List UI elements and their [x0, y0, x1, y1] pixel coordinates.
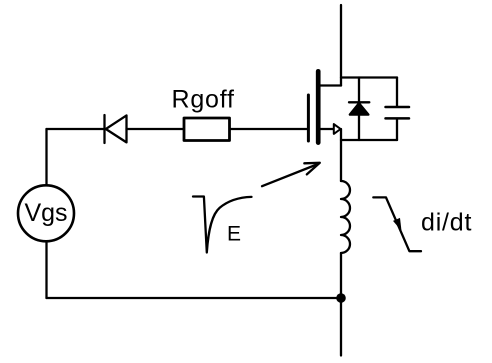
svg-text:Vgs: Vgs — [24, 199, 67, 227]
wire: drain vertical to top edge — [340, 5, 342, 86]
annotation arrow head (open) — [304, 163, 320, 175]
inductor L (4 loops) — [341, 181, 350, 253]
wire: resistor to MOSFET gate — [231, 128, 307, 130]
MOSFET Q1 source arrow — [334, 124, 341, 134]
MOSFET Q1 channel bar — [316, 71, 321, 142]
wire: bottom return rail — [47, 297, 342, 299]
junction node dot — [336, 293, 346, 303]
wire: left vertical from gate wire corner down to Vgs top — [45, 129, 47, 185]
capacitor C top plate — [386, 106, 410, 109]
diode D1 cathode bar — [103, 115, 105, 143]
wire: body diode branch lower — [358, 114, 360, 140]
capacitor C bottom plate — [386, 117, 410, 120]
MOSFET Q1 drain lead — [320, 84, 341, 86]
wire: junction to bottom edge — [340, 298, 342, 356]
body diode cathode bar — [349, 101, 369, 103]
wire: source vertical down to inductor — [340, 129, 342, 181]
wire: inductor to junction — [340, 253, 342, 298]
wire: capacitor branch upper — [396, 78, 398, 107]
svg-text:E: E — [227, 223, 241, 246]
MOSFET Q1 gate plate — [307, 95, 310, 141]
di/dt slope line — [373, 197, 421, 251]
E spike waveform — [193, 197, 252, 253]
svg-text:Rgoff: Rgoff — [172, 86, 235, 114]
wire: left vertical from Vgs bottom to bottom rail — [45, 242, 47, 299]
wire: top rail of clamp network — [341, 76, 397, 78]
annotation arrow shaft pointing at MOSFET source — [262, 164, 318, 186]
voltage source Vgs circle — [18, 185, 74, 241]
diode D1 triangle (pointing left) — [106, 115, 127, 142]
svg-text:di/dt: di/dt — [421, 209, 472, 237]
wire: diode to resistor — [127, 128, 184, 130]
wire: capacitor branch lower — [396, 119, 398, 140]
resistor Rgoff body — [184, 118, 230, 141]
MOSFET Q1 source lead — [320, 128, 334, 130]
body diode triangle (pointing up, filled) — [350, 103, 369, 114]
wire: body diode branch upper — [358, 78, 360, 102]
wire: bottom rail of clamp network — [341, 139, 397, 141]
di/dt arrowhead (filled) — [393, 218, 402, 231]
wire: gate wire from corner to diode cathode — [47, 128, 104, 130]
